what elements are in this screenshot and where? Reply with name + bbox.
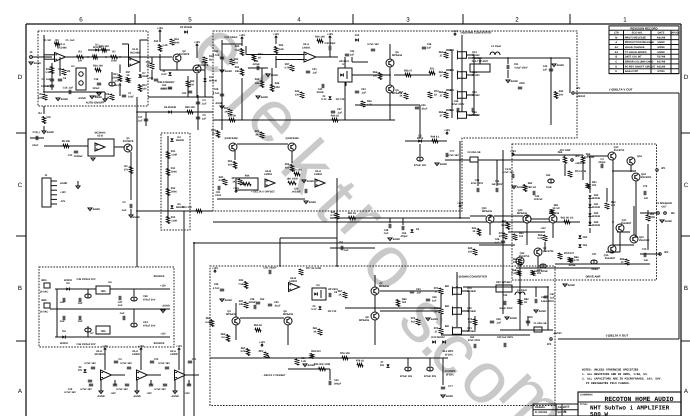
svg-text:R26 10K: R26 10K xyxy=(93,65,103,68)
svg-text:+12V: +12V xyxy=(60,191,66,194)
svg-text:9/17/98: 9/17/98 xyxy=(657,61,666,64)
svg-text:1K: 1K xyxy=(212,133,215,136)
svg-text:VALUE CHANGE: VALUE CHANGE xyxy=(625,46,645,49)
svg-text:C79: C79 xyxy=(643,185,648,188)
svg-text:D3 C13: D3 C13 xyxy=(328,310,337,313)
svg-text:1K: 1K xyxy=(434,94,437,97)
svg-text:300: 300 xyxy=(537,272,542,275)
svg-text:LM393: LM393 xyxy=(264,173,272,176)
svg-text:1uF: 1uF xyxy=(644,197,649,200)
svg-text:MPSA06: MPSA06 xyxy=(359,319,370,322)
svg-text:D31 W4002: D31 W4002 xyxy=(431,336,445,339)
svg-text:-15V: -15V xyxy=(160,333,166,336)
svg-text:500 W: 500 W xyxy=(590,411,608,416)
svg-text:4.7uF 16V: 4.7uF 16V xyxy=(84,362,96,365)
svg-text:2SC2878: 2SC2878 xyxy=(123,140,134,143)
svg-text:AGND: AGND xyxy=(225,70,233,73)
svg-text:C51: C51 xyxy=(339,241,344,244)
svg-text:2200: 2200 xyxy=(519,82,525,85)
svg-text:120: 120 xyxy=(142,88,147,91)
svg-text:1K: 1K xyxy=(258,57,261,60)
svg-text:4: 4 xyxy=(297,17,301,24)
svg-text:1uF: 1uF xyxy=(495,242,500,245)
svg-text:4.7uF 16V: 4.7uF 16V xyxy=(502,171,514,174)
svg-text:910: 910 xyxy=(285,167,290,170)
svg-text:7.5K: 7.5K xyxy=(234,49,239,52)
svg-text:+15V: +15V xyxy=(327,33,333,36)
svg-text:BBT1-ON: BBT1-ON xyxy=(160,88,171,91)
svg-text:+15V: +15V xyxy=(138,345,144,348)
svg-text:1.8M: 1.8M xyxy=(171,220,177,223)
svg-text:1.8M: 1.8M xyxy=(171,154,177,157)
svg-text:AGND: AGND xyxy=(511,80,519,83)
svg-text:3.0K: 3.0K xyxy=(240,350,245,353)
svg-text:R63: R63 xyxy=(502,220,507,223)
svg-text:100uF: 100uF xyxy=(92,87,100,90)
svg-text:R9 20K: R9 20K xyxy=(62,140,71,143)
svg-text:W4002: W4002 xyxy=(60,342,69,345)
svg-text:NOTES: UNLESS OTHERWISE SPECIF: NOTES: UNLESS OTHERWISE SPECIFIED xyxy=(582,368,639,371)
svg-text:47uF 200V: 47uF 200V xyxy=(471,182,484,185)
svg-text:2SA1837: 2SA1837 xyxy=(621,222,632,225)
svg-text:16V: 16V xyxy=(45,85,50,88)
svg-text:U2-B: U2-B xyxy=(97,135,103,138)
svg-text:2SC2878: 2SC2878 xyxy=(198,64,209,67)
svg-text:.1uF: .1uF xyxy=(59,301,65,304)
svg-text:AGND: AGND xyxy=(510,317,518,320)
svg-text:R23 5K: R23 5K xyxy=(228,115,237,118)
svg-text:3.6K: 3.6K xyxy=(278,48,283,51)
svg-text:TITLE:: TITLE: xyxy=(580,403,588,406)
svg-text:476 1/2W: 476 1/2W xyxy=(560,149,571,152)
svg-text:2.2K: 2.2K xyxy=(537,237,542,240)
svg-text:AGND: AGND xyxy=(517,186,525,189)
svg-text:150: 150 xyxy=(468,251,473,254)
svg-text:+15V: +15V xyxy=(102,345,108,348)
svg-text:M: M xyxy=(615,36,617,39)
svg-text:-15V: -15V xyxy=(184,392,190,395)
svg-text:MPSA06: MPSA06 xyxy=(379,285,390,288)
svg-text:6: 6 xyxy=(79,17,83,24)
svg-text:L2 10uH: L2 10uH xyxy=(491,45,501,48)
svg-text:3K: 3K xyxy=(313,331,316,334)
svg-text:1uF: 1uF xyxy=(427,47,432,50)
svg-text:RECOTON HOME AUDIO: RECOTON HOME AUDIO xyxy=(604,396,673,403)
svg-text:4.2K: 4.2K xyxy=(218,179,223,182)
svg-text:+15V: +15V xyxy=(160,285,166,288)
svg-text:3: 3 xyxy=(406,17,410,24)
svg-text:R51 1K: R51 1K xyxy=(348,212,357,215)
svg-text:SOURCE: SOURCE xyxy=(153,342,164,345)
svg-text:5/6/98: 5/6/98 xyxy=(658,41,666,44)
svg-text:HP-2601: HP-2601 xyxy=(339,60,349,63)
svg-text:.1uF: .1uF xyxy=(496,322,502,325)
svg-text:1K 1/2: 1K 1/2 xyxy=(552,207,560,210)
svg-text:.1uF: .1uF xyxy=(361,92,367,95)
svg-text:1.3K: 1.3K xyxy=(45,71,50,74)
svg-text:.1uF: .1uF xyxy=(77,302,83,305)
svg-text:7/17/98: 7/17/98 xyxy=(657,56,666,59)
svg-text:880: 880 xyxy=(450,89,455,92)
svg-text:4.7uF 16V: 4.7uF 16V xyxy=(158,362,170,365)
svg-text:390pF: 390pF xyxy=(334,383,342,386)
svg-text:200K: 200K xyxy=(113,77,119,80)
svg-text:MC34004: MC34004 xyxy=(95,132,106,135)
svg-text:4.7uF 16V: 4.7uF 16V xyxy=(120,362,132,365)
svg-text:4.7K: 4.7K xyxy=(330,214,335,217)
svg-text:1uF: 1uF xyxy=(432,300,437,303)
svg-text:AGND: AGND xyxy=(215,102,223,105)
svg-text:D50: D50 xyxy=(583,236,588,239)
svg-text:.1uF: .1uF xyxy=(201,103,207,106)
svg-text:R30: R30 xyxy=(235,45,240,48)
svg-text:6/5/98: 6/5/98 xyxy=(658,51,666,54)
svg-text:COMPANY:: COMPANY: xyxy=(580,393,593,396)
svg-text:(-)DELTA V OUT: (-)DELTA V OUT xyxy=(606,334,629,338)
svg-text:3K: 3K xyxy=(255,134,258,137)
svg-text:6/3/98: 6/3/98 xyxy=(658,46,666,49)
svg-text:C1 .1uF: C1 .1uF xyxy=(65,39,75,42)
svg-text:W4148: W4148 xyxy=(592,224,601,227)
svg-text:R77 1K 1/2W: R77 1K 1/2W xyxy=(306,267,322,270)
svg-text:R39 10K: R39 10K xyxy=(315,36,325,39)
svg-text:10uF: 10uF xyxy=(546,186,552,189)
svg-text:R58 27: R58 27 xyxy=(404,70,413,73)
svg-text:4.7uF 16V: 4.7uF 16V xyxy=(447,154,459,157)
svg-text:1K: 1K xyxy=(472,230,475,233)
svg-text:.0039uF: .0039uF xyxy=(73,155,83,158)
svg-text:B: B xyxy=(564,410,566,413)
svg-text:P78 1K: P78 1K xyxy=(356,360,365,363)
svg-text:300: 300 xyxy=(513,261,518,264)
svg-text:1uF: 1uF xyxy=(550,297,555,300)
svg-text:3.6: 3.6 xyxy=(221,336,225,339)
svg-text:MC2486: MC2486 xyxy=(130,52,140,55)
svg-text:.0033uF: .0033uF xyxy=(291,191,301,194)
svg-text:2.7K: 2.7K xyxy=(574,259,579,262)
svg-text:1uF: 1uF xyxy=(350,54,355,57)
svg-text:R33: R33 xyxy=(239,279,244,282)
svg-text:W4002: W4002 xyxy=(64,279,73,282)
svg-text:-15V: -15V xyxy=(146,392,152,395)
svg-text:4.7uF: 4.7uF xyxy=(213,92,220,95)
svg-text:R62 0K 1/2: R62 0K 1/2 xyxy=(561,217,574,220)
svg-text:470uF 16V: 470uF 16V xyxy=(400,375,413,378)
svg-text:AGND: AGND xyxy=(665,220,673,223)
svg-text:2768 1/2: 2768 1/2 xyxy=(526,186,536,189)
svg-text:BAV99: BAV99 xyxy=(176,206,184,209)
svg-text:AGND: AGND xyxy=(162,305,170,308)
svg-text:BC2486: BC2486 xyxy=(57,47,67,50)
svg-text:D51: D51 xyxy=(583,244,588,247)
svg-text:13K: 13K xyxy=(235,70,240,73)
svg-text:W 1HC: W 1HC xyxy=(446,374,454,377)
svg-text:47uF 200V: 47uF 200V xyxy=(468,339,481,342)
svg-text:18K 1/2W: 18K 1/2W xyxy=(286,178,298,181)
svg-text:15V: 15V xyxy=(380,364,385,367)
svg-text:470uF 25V: 470uF 25V xyxy=(424,375,437,378)
svg-text:R76 10K: R76 10K xyxy=(340,352,350,355)
svg-text:5.6K: 5.6K xyxy=(205,321,210,324)
svg-text:.1uF: .1uF xyxy=(343,249,349,252)
svg-text:.1uF: .1uF xyxy=(416,292,422,295)
svg-text:10V: 10V xyxy=(78,369,83,372)
svg-text:C36: C36 xyxy=(214,283,219,286)
svg-text:880: 880 xyxy=(445,305,450,308)
svg-text:LM390: LM390 xyxy=(170,353,178,356)
svg-text:200: 200 xyxy=(78,60,83,63)
svg-text:5K: 5K xyxy=(146,65,149,68)
svg-text:C107: C107 xyxy=(568,252,575,255)
svg-text:AGND: AGND xyxy=(47,131,55,134)
svg-text:D3 W4148: D3 W4148 xyxy=(180,26,192,29)
svg-text:C8, 1uF: C8, 1uF xyxy=(41,78,51,81)
svg-text:1.4K: 1.4K xyxy=(162,44,167,47)
svg-text:C??: C?? xyxy=(448,385,453,388)
svg-text:910: 910 xyxy=(228,164,233,167)
svg-text:0.8uF 250V: 0.8uF 250V xyxy=(514,67,527,70)
svg-text:1K: 1K xyxy=(232,181,235,184)
svg-text:.1uF: .1uF xyxy=(137,120,143,123)
svg-text:ECO NO.: ECO NO. xyxy=(632,32,643,35)
svg-text:(-)DOWN CONVERTER: (-)DOWN CONVERTER xyxy=(457,275,487,279)
svg-text:-15V: -15V xyxy=(540,227,546,230)
svg-text:D: D xyxy=(684,74,689,81)
svg-text:C50 .022uF: C50 .022uF xyxy=(263,267,277,270)
svg-text:880: 880 xyxy=(450,49,455,52)
svg-text:130: 130 xyxy=(295,94,300,97)
svg-text:6/7/99: 6/7/99 xyxy=(658,70,666,73)
svg-text:W4148: W4148 xyxy=(592,215,601,218)
svg-text:+15V: +15V xyxy=(239,34,245,37)
svg-text:REVISION RECORD: REVISION RECORD xyxy=(630,26,657,30)
svg-text:C: C xyxy=(684,182,689,189)
svg-text:BR4: BR4 xyxy=(41,279,47,282)
svg-text:79l5: 79l5 xyxy=(100,330,106,333)
svg-text:PG REV ON/OFF CIRCUIT: PG REV ON/OFF CIRCUIT xyxy=(625,65,656,68)
svg-text:D10: D10 xyxy=(355,34,360,37)
svg-text:W4148: W4148 xyxy=(592,206,601,209)
svg-text:4.7uF 16V: 4.7uF 16V xyxy=(116,388,128,391)
svg-text:1.2K: 1.2K xyxy=(301,360,306,363)
svg-text:+15V: +15V xyxy=(176,345,182,348)
svg-text:C10: C10 xyxy=(68,154,73,157)
svg-text:MPSA06: MPSA06 xyxy=(283,313,294,316)
svg-text:AGND: AGND xyxy=(261,96,269,99)
svg-text:.022uF: .022uF xyxy=(316,91,324,94)
svg-text:D2 C13: D2 C13 xyxy=(336,98,345,101)
svg-text:AGND: AGND xyxy=(393,238,401,241)
svg-text:C46 1000uF 20V: C46 1000uF 20V xyxy=(76,343,95,346)
svg-text:JP3: JP3 xyxy=(547,343,552,346)
svg-text:C79: C79 xyxy=(642,248,647,251)
svg-text:C15: C15 xyxy=(149,77,154,80)
svg-text:Q16: Q16 xyxy=(637,155,642,158)
svg-text:130K: 130K xyxy=(274,86,280,89)
svg-text:+85/150: +85/150 xyxy=(576,95,586,98)
svg-text:270: 270 xyxy=(124,169,129,172)
svg-text:L3 10uH: L3 10uH xyxy=(517,289,527,292)
svg-text:C: C xyxy=(18,182,23,189)
svg-text:C16 .1uF: C16 .1uF xyxy=(63,87,74,90)
svg-text:2SC4793: 2SC4793 xyxy=(614,149,625,152)
svg-text:D: D xyxy=(18,74,23,81)
svg-text:JP2: JP2 xyxy=(664,251,669,254)
svg-text:1K: 1K xyxy=(224,111,227,114)
svg-text:R19: R19 xyxy=(154,40,159,43)
svg-text:AGND: AGND xyxy=(557,64,565,67)
svg-text:1K: 1K xyxy=(524,301,527,304)
svg-text:R31: R31 xyxy=(235,66,240,69)
svg-text:JP1: JP1 xyxy=(576,87,581,90)
svg-text:1/2W: 1/2W xyxy=(649,216,655,219)
svg-text:AGND: AGND xyxy=(539,310,547,313)
svg-text:R34: R34 xyxy=(279,44,284,47)
svg-text:880: 880 xyxy=(445,325,450,328)
svg-text:.1uF: .1uF xyxy=(77,320,83,323)
svg-text:5.6K: 5.6K xyxy=(501,224,506,227)
svg-text:C10: C10 xyxy=(154,358,159,361)
svg-text:.1uF: .1uF xyxy=(121,209,127,212)
svg-text:PROTO RELEASE: PROTO RELEASE xyxy=(625,36,647,39)
svg-text:300K: 300K xyxy=(171,191,177,194)
svg-text:4.7uF 16V: 4.7uF 16V xyxy=(64,391,76,394)
svg-text:R62: R62 xyxy=(528,182,533,185)
svg-text:2SC3201: 2SC3201 xyxy=(641,176,652,179)
svg-text:470uF 20V: 470uF 20V xyxy=(143,299,156,302)
svg-text:4.7K: 4.7K xyxy=(284,67,289,70)
svg-text:+15V: +15V xyxy=(273,33,279,36)
svg-text:.01uF: .01uF xyxy=(274,305,281,308)
svg-text:5: 5 xyxy=(188,17,192,24)
svg-text:AUTO-ON/OFF: AUTO-ON/OFF xyxy=(86,102,105,105)
svg-text:18 VAC: 18 VAC xyxy=(40,291,49,294)
svg-text:AGND: AGND xyxy=(568,284,576,287)
svg-text:W4148: W4148 xyxy=(592,197,601,200)
svg-text:100K: 100K xyxy=(111,60,117,63)
svg-text:AGND: AGND xyxy=(171,395,179,398)
svg-text:+15V: +15V xyxy=(194,41,200,44)
svg-text:+15V: +15V xyxy=(510,150,516,153)
svg-text:CT VALUE ADDED: CT VALUE ADDED xyxy=(625,51,647,54)
svg-text:C26: C26 xyxy=(214,50,219,53)
svg-text:470uF 20V: 470uF 20V xyxy=(143,325,156,328)
svg-text:(+)DELTA V OUT: (+)DELTA V OUT xyxy=(609,88,632,92)
svg-text:+15V: +15V xyxy=(444,129,450,132)
svg-text:5.1V: 5.1V xyxy=(321,98,326,101)
svg-text:-12V: -12V xyxy=(60,200,66,203)
svg-text:R45: R45 xyxy=(275,82,280,85)
svg-text:RP2: RP2 xyxy=(259,350,264,353)
svg-text:.1uF: .1uF xyxy=(312,72,318,75)
svg-text:OUT: OUT xyxy=(661,206,667,209)
svg-text:4.7uF 16V: 4.7uF 16V xyxy=(80,388,92,391)
svg-text:Q4 BF5438: Q4 BF5438 xyxy=(286,137,300,140)
svg-text:AGND: AGND xyxy=(133,395,141,398)
svg-text:AGND: AGND xyxy=(307,180,315,183)
svg-text:880: 880 xyxy=(450,109,455,112)
svg-text:LTR: LTR xyxy=(614,32,619,35)
svg-text:MPSA06: MPSA06 xyxy=(517,212,528,215)
svg-text:MPSA06: MPSA06 xyxy=(226,313,237,316)
svg-text:R48 10K: R48 10K xyxy=(185,106,195,109)
svg-text:R35 10K: R35 10K xyxy=(99,45,109,48)
svg-text:C37: C37 xyxy=(592,253,597,256)
svg-text:AGND: AGND xyxy=(97,395,105,398)
svg-text:C18: C18 xyxy=(94,78,99,81)
svg-text:LM393: LM393 xyxy=(302,47,310,50)
svg-text:4.7uF: 4.7uF xyxy=(213,54,220,57)
svg-text:MPSA06: MPSA06 xyxy=(392,54,403,57)
svg-text:880: 880 xyxy=(445,285,450,288)
svg-text:JP1: JP1 xyxy=(661,167,666,170)
svg-text:2: 2 xyxy=(515,17,519,24)
svg-text:AGND: AGND xyxy=(60,182,68,185)
svg-text:LM393: LM393 xyxy=(289,280,297,283)
svg-text:MC34004: MC34004 xyxy=(95,353,106,356)
svg-text:AGND: AGND xyxy=(309,201,317,204)
svg-text:.0047uF: .0047uF xyxy=(533,198,543,201)
svg-text:R74 1/2W: R74 1/2W xyxy=(575,170,587,173)
svg-text:C??: C?? xyxy=(450,150,455,153)
svg-text:1K: 1K xyxy=(399,95,402,98)
svg-text:.022uF: .022uF xyxy=(248,301,256,304)
svg-text:300: 300 xyxy=(592,184,597,187)
svg-text:+15V: +15V xyxy=(212,267,218,270)
svg-text:DATE: DATE xyxy=(658,32,665,35)
svg-text:PRODUCTION RELEASE: PRODUCTION RELEASE xyxy=(625,41,655,44)
svg-text:470uF 16V: 470uF 16V xyxy=(414,164,427,167)
svg-text:F1 2AG-1B: F1 2AG-1B xyxy=(534,322,547,325)
svg-text:IRM-STANDBY: IRM-STANDBY xyxy=(157,81,175,84)
svg-text:470: 470 xyxy=(499,235,504,238)
svg-text:1K: 1K xyxy=(126,74,129,77)
svg-text:R44: R44 xyxy=(245,175,250,178)
svg-text:SIZE: SIZE xyxy=(564,406,570,409)
svg-text:AGND: AGND xyxy=(95,96,103,99)
svg-text:LM390: LM390 xyxy=(132,353,140,356)
svg-text:4.7uF 16V: 4.7uF 16V xyxy=(154,388,166,391)
svg-text:Added CR7: Added CR7 xyxy=(625,70,639,73)
svg-text:6.2V: 6.2V xyxy=(161,73,166,76)
svg-text:C: C xyxy=(615,61,617,64)
svg-text:R48 8.1: R48 8.1 xyxy=(431,136,440,139)
svg-text:100: 100 xyxy=(559,94,564,97)
svg-text:13K: 13K xyxy=(239,303,244,306)
svg-text:2.2K: 2.2K xyxy=(511,272,516,275)
svg-text:R63 910: R63 910 xyxy=(311,350,321,353)
svg-text:A: A xyxy=(615,41,617,44)
svg-text:W 1HC: W 1HC xyxy=(445,354,453,357)
svg-text:5K: 5K xyxy=(209,59,212,62)
svg-text:300K: 300K xyxy=(171,171,177,174)
svg-text:.1uF: .1uF xyxy=(59,320,65,323)
svg-text:R. GROSS: R. GROSS xyxy=(535,411,548,414)
svg-text:1uF: 1uF xyxy=(202,118,207,121)
svg-text:- DELTA V OFFSET: - DELTA V OFFSET xyxy=(262,374,286,377)
svg-text:C23: C23 xyxy=(182,92,187,95)
svg-text:AGND: AGND xyxy=(440,163,448,166)
svg-text:180: 180 xyxy=(255,82,260,85)
svg-text:C62: C62 xyxy=(546,174,551,177)
svg-text:C24 .022uF: C24 .022uF xyxy=(224,36,238,39)
svg-text:APVD: APVD xyxy=(671,32,678,35)
svg-text:DRAWN:: DRAWN: xyxy=(535,406,545,409)
svg-text:1uF: 1uF xyxy=(644,259,649,262)
svg-text:5.1V: 5.1V xyxy=(311,308,316,311)
svg-text:AGND: AGND xyxy=(446,395,454,398)
svg-text:4.7uF 16V: 4.7uF 16V xyxy=(367,43,379,46)
